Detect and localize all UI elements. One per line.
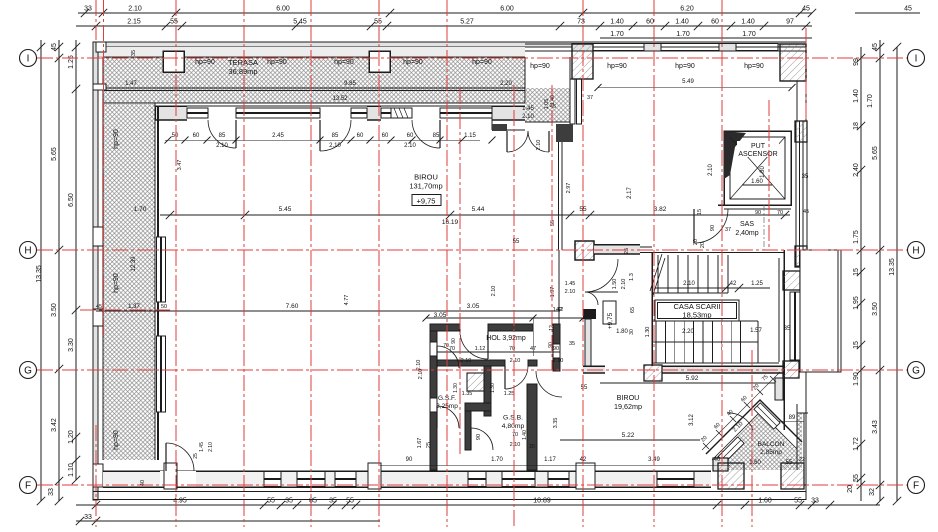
svg-text:2.10: 2.10 bbox=[128, 6, 142, 13]
svg-text:3.82: 3.82 bbox=[654, 206, 667, 213]
svg-text:85: 85 bbox=[219, 133, 226, 139]
svg-text:F: F bbox=[913, 481, 919, 492]
svg-text:15: 15 bbox=[697, 209, 703, 215]
svg-text:3.05: 3.05 bbox=[467, 303, 480, 310]
svg-text:1.40: 1.40 bbox=[610, 19, 624, 26]
svg-text:1.70: 1.70 bbox=[676, 31, 690, 38]
svg-text:16.19: 16.19 bbox=[442, 219, 459, 226]
svg-text:hp=90: hp=90 bbox=[744, 63, 764, 70]
svg-text:18: 18 bbox=[853, 122, 860, 130]
svg-text:90: 90 bbox=[451, 338, 457, 344]
svg-text:55: 55 bbox=[267, 498, 275, 505]
svg-text:1.10: 1.10 bbox=[68, 463, 75, 477]
svg-text:1.40: 1.40 bbox=[853, 89, 860, 103]
svg-text:I: I bbox=[915, 54, 918, 65]
svg-text:50: 50 bbox=[161, 304, 167, 310]
svg-text:5.45: 5.45 bbox=[279, 206, 292, 213]
svg-text:15: 15 bbox=[853, 268, 860, 276]
svg-text:37: 37 bbox=[725, 227, 731, 233]
svg-text:50: 50 bbox=[172, 133, 179, 139]
svg-text:1.50: 1.50 bbox=[612, 279, 618, 290]
svg-text:55: 55 bbox=[170, 19, 178, 26]
svg-text:1.60: 1.60 bbox=[758, 498, 772, 505]
svg-text:1.80: 1.80 bbox=[760, 166, 766, 178]
svg-text:2,85mp: 2,85mp bbox=[760, 449, 782, 456]
svg-text:1.30: 1.30 bbox=[453, 383, 459, 393]
svg-text:1.70: 1.70 bbox=[867, 94, 874, 108]
svg-text:25: 25 bbox=[426, 442, 432, 448]
svg-text:1.40: 1.40 bbox=[522, 430, 528, 440]
svg-text:12.39: 12.39 bbox=[131, 256, 137, 272]
svg-text:60: 60 bbox=[193, 133, 200, 139]
svg-text:60: 60 bbox=[646, 19, 654, 26]
svg-text:73: 73 bbox=[577, 19, 585, 26]
svg-text:55: 55 bbox=[374, 19, 382, 26]
svg-text:1.12: 1.12 bbox=[475, 346, 486, 352]
svg-text:3.43: 3.43 bbox=[872, 420, 879, 434]
svg-text:70: 70 bbox=[449, 346, 455, 352]
svg-text:1.3: 1.3 bbox=[629, 273, 635, 281]
svg-text:33: 33 bbox=[48, 488, 55, 496]
svg-text:6.20: 6.20 bbox=[680, 6, 694, 13]
svg-text:13.52: 13.52 bbox=[332, 96, 348, 102]
svg-text:1.70: 1.70 bbox=[610, 31, 624, 38]
svg-text:1.05: 1.05 bbox=[544, 99, 550, 110]
svg-text:hp=90: hp=90 bbox=[403, 59, 423, 66]
svg-text:HOL 3,92mp: HOL 3,92mp bbox=[486, 335, 526, 342]
svg-text:BIROU: BIROU bbox=[414, 173, 438, 182]
svg-text:70: 70 bbox=[443, 343, 449, 349]
svg-text:I: I bbox=[27, 54, 30, 65]
svg-text:TERASA: TERASA bbox=[228, 58, 258, 67]
svg-text:33: 33 bbox=[811, 498, 819, 505]
svg-text:60: 60 bbox=[382, 133, 389, 139]
svg-text:13.35: 13.35 bbox=[889, 258, 896, 276]
svg-text:+9,75: +9,75 bbox=[607, 312, 614, 329]
svg-text:90: 90 bbox=[476, 434, 482, 440]
svg-text:1.70: 1.70 bbox=[491, 457, 503, 463]
svg-text:6.50: 6.50 bbox=[68, 193, 75, 207]
svg-text:45: 45 bbox=[96, 304, 102, 310]
svg-text:35: 35 bbox=[802, 174, 809, 180]
svg-text:1.45: 1.45 bbox=[565, 281, 576, 287]
svg-text:97: 97 bbox=[786, 19, 794, 26]
svg-text:1.25: 1.25 bbox=[751, 281, 763, 287]
svg-text:3.42: 3.42 bbox=[51, 418, 58, 432]
svg-text:45: 45 bbox=[802, 6, 810, 13]
svg-text:89: 89 bbox=[789, 415, 796, 421]
svg-text:6.00: 6.00 bbox=[500, 6, 514, 13]
svg-text:3.50: 3.50 bbox=[872, 302, 879, 316]
svg-text:1.25: 1.25 bbox=[68, 55, 75, 69]
svg-text:45: 45 bbox=[803, 209, 809, 215]
svg-text:25: 25 bbox=[193, 453, 199, 459]
svg-text:BALCON: BALCON bbox=[758, 441, 785, 448]
svg-text:33: 33 bbox=[84, 6, 92, 13]
svg-text:2.10: 2.10 bbox=[216, 143, 228, 149]
svg-text:hp=90: hp=90 bbox=[675, 63, 695, 70]
svg-text:hp=90: hp=90 bbox=[113, 273, 120, 293]
svg-text:hp=90: hp=90 bbox=[530, 63, 550, 70]
svg-text:2.10: 2.10 bbox=[553, 358, 564, 364]
svg-text:30: 30 bbox=[629, 329, 635, 335]
svg-text:1.20: 1.20 bbox=[68, 430, 75, 444]
svg-text:60: 60 bbox=[711, 19, 719, 26]
svg-text:2.20: 2.20 bbox=[682, 329, 694, 335]
svg-text:2.10: 2.10 bbox=[510, 442, 521, 448]
svg-text:2.20: 2.20 bbox=[500, 81, 512, 87]
svg-text:2.10: 2.10 bbox=[510, 358, 521, 364]
svg-text:35: 35 bbox=[131, 50, 137, 56]
svg-text:1.72: 1.72 bbox=[853, 437, 860, 451]
svg-text:70: 70 bbox=[512, 432, 518, 438]
svg-text:2.40: 2.40 bbox=[853, 163, 860, 177]
svg-text:G.S.B.: G.S.B. bbox=[503, 415, 523, 422]
svg-text:18,53mp: 18,53mp bbox=[682, 311, 711, 320]
svg-text:90: 90 bbox=[406, 457, 413, 463]
svg-text:hp=90: hp=90 bbox=[334, 59, 354, 66]
svg-text:3.30: 3.30 bbox=[68, 338, 75, 352]
svg-text:1.30: 1.30 bbox=[645, 327, 651, 338]
svg-text:hp=90: hp=90 bbox=[267, 59, 287, 66]
svg-text:5.92: 5.92 bbox=[686, 375, 699, 382]
svg-text:2.10: 2.10 bbox=[329, 143, 341, 149]
svg-text:85: 85 bbox=[433, 133, 440, 139]
svg-text:2,40mp: 2,40mp bbox=[735, 230, 758, 237]
svg-text:13.35: 13.35 bbox=[36, 265, 43, 283]
svg-text:1.67: 1.67 bbox=[417, 438, 423, 449]
svg-text:5.44: 5.44 bbox=[472, 206, 485, 213]
svg-text:2.10: 2.10 bbox=[404, 143, 416, 149]
svg-text:20: 20 bbox=[847, 485, 854, 493]
svg-text:90: 90 bbox=[710, 225, 716, 231]
svg-text:131,70mp: 131,70mp bbox=[409, 182, 442, 191]
svg-text:2.10: 2.10 bbox=[565, 289, 576, 295]
svg-text:1.40: 1.40 bbox=[741, 19, 755, 26]
svg-text:2.10: 2.10 bbox=[491, 286, 497, 297]
svg-text:2.10: 2.10 bbox=[208, 442, 214, 452]
svg-text:+9,75: +9,75 bbox=[417, 197, 436, 206]
svg-text:35: 35 bbox=[329, 498, 337, 505]
svg-text:2.10: 2.10 bbox=[522, 114, 534, 120]
svg-text:3.12: 3.12 bbox=[689, 414, 695, 426]
svg-text:F: F bbox=[25, 481, 31, 492]
svg-text:hp=90: hp=90 bbox=[113, 430, 120, 450]
svg-text:25: 25 bbox=[624, 248, 630, 254]
svg-text:SAS: SAS bbox=[740, 221, 754, 228]
svg-text:1.47: 1.47 bbox=[125, 81, 137, 87]
svg-text:33: 33 bbox=[84, 514, 92, 521]
svg-text:H: H bbox=[24, 246, 31, 257]
svg-text:36,89mp: 36,89mp bbox=[228, 67, 257, 76]
svg-text:9.85: 9.85 bbox=[344, 81, 356, 87]
svg-text:1.42: 1.42 bbox=[553, 307, 564, 313]
svg-text:65: 65 bbox=[630, 307, 636, 313]
svg-text:BIROU: BIROU bbox=[617, 393, 640, 402]
svg-text:5.45: 5.45 bbox=[293, 19, 307, 26]
svg-text:5.65: 5.65 bbox=[51, 147, 58, 161]
svg-text:3.47: 3.47 bbox=[177, 160, 183, 171]
svg-text:1.45: 1.45 bbox=[522, 106, 534, 112]
svg-text:hp=90: hp=90 bbox=[195, 59, 215, 66]
svg-text:1.75: 1.75 bbox=[853, 230, 860, 244]
svg-text:10.89: 10.89 bbox=[533, 498, 551, 505]
svg-text:PUT: PUT bbox=[751, 143, 766, 150]
svg-text:2.10: 2.10 bbox=[621, 279, 627, 290]
svg-text:1.15: 1.15 bbox=[464, 133, 476, 139]
svg-text:6.00: 6.00 bbox=[276, 6, 290, 13]
svg-text:90: 90 bbox=[548, 342, 554, 348]
svg-text:85: 85 bbox=[309, 498, 317, 505]
svg-text:99: 99 bbox=[853, 58, 860, 66]
svg-text:4.77: 4.77 bbox=[344, 295, 350, 306]
svg-text:1.40: 1.40 bbox=[675, 19, 689, 26]
svg-text:55: 55 bbox=[581, 385, 588, 391]
svg-text:1.60: 1.60 bbox=[749, 460, 761, 466]
svg-text:hp=90: hp=90 bbox=[472, 59, 492, 66]
svg-text:1.90: 1.90 bbox=[853, 372, 860, 386]
svg-text:hp=90: hp=90 bbox=[607, 63, 627, 70]
svg-text:45: 45 bbox=[51, 43, 58, 51]
svg-text:55: 55 bbox=[794, 498, 802, 505]
svg-text:1.17: 1.17 bbox=[544, 457, 556, 463]
svg-text:37: 37 bbox=[587, 95, 593, 101]
svg-text:5.27: 5.27 bbox=[460, 19, 474, 26]
svg-text:2.15: 2.15 bbox=[127, 19, 141, 26]
svg-text:5.22: 5.22 bbox=[622, 432, 635, 439]
svg-text:G: G bbox=[24, 366, 32, 377]
svg-text:2.17: 2.17 bbox=[627, 187, 633, 199]
svg-text:1.30: 1.30 bbox=[490, 383, 496, 393]
svg-text:1.95: 1.95 bbox=[853, 296, 860, 310]
svg-text:2.10: 2.10 bbox=[536, 140, 542, 151]
svg-text:45: 45 bbox=[872, 43, 879, 51]
svg-text:G: G bbox=[912, 366, 920, 377]
svg-text:1.97: 1.97 bbox=[550, 287, 556, 298]
svg-text:20: 20 bbox=[529, 444, 535, 450]
svg-text:4,80mp: 4,80mp bbox=[502, 423, 525, 430]
svg-text:1.40: 1.40 bbox=[550, 95, 556, 105]
svg-text:1.45: 1.45 bbox=[199, 442, 205, 452]
svg-text:55: 55 bbox=[550, 220, 556, 226]
svg-text:hp=90: hp=90 bbox=[113, 129, 120, 149]
svg-text:55: 55 bbox=[853, 474, 860, 482]
svg-text:55: 55 bbox=[346, 498, 354, 505]
svg-text:2.10: 2.10 bbox=[461, 358, 472, 364]
svg-text:H: H bbox=[912, 246, 919, 257]
svg-text:19,62mp: 19,62mp bbox=[614, 402, 642, 411]
svg-text:35: 35 bbox=[285, 498, 293, 505]
svg-text:20: 20 bbox=[693, 239, 699, 245]
svg-text:1.25: 1.25 bbox=[504, 391, 515, 397]
svg-text:1.57: 1.57 bbox=[750, 328, 762, 334]
svg-text:7.60: 7.60 bbox=[286, 303, 299, 310]
svg-text:3.50: 3.50 bbox=[51, 303, 58, 317]
svg-text:4.95: 4.95 bbox=[173, 498, 187, 505]
svg-text:3.35: 3.35 bbox=[553, 418, 559, 429]
svg-text:40: 40 bbox=[714, 457, 721, 463]
svg-text:1.37: 1.37 bbox=[128, 304, 140, 310]
svg-text:15: 15 bbox=[853, 341, 860, 349]
svg-text:22: 22 bbox=[799, 457, 805, 463]
svg-text:32: 32 bbox=[869, 488, 876, 496]
svg-text:ASCENSOR: ASCENSOR bbox=[738, 151, 777, 158]
svg-text:1.80: 1.80 bbox=[616, 329, 628, 335]
svg-text:2.10: 2.10 bbox=[708, 164, 714, 176]
svg-text:1.70: 1.70 bbox=[742, 31, 756, 38]
svg-text:5.65: 5.65 bbox=[872, 146, 879, 160]
svg-text:60: 60 bbox=[357, 133, 364, 139]
svg-text:2.10: 2.10 bbox=[416, 360, 422, 371]
svg-text:2.45: 2.45 bbox=[272, 133, 284, 139]
svg-text:45: 45 bbox=[904, 6, 912, 13]
svg-text:85: 85 bbox=[332, 133, 339, 139]
svg-text:60: 60 bbox=[407, 133, 414, 139]
svg-text:1.70: 1.70 bbox=[134, 206, 147, 213]
svg-text:35: 35 bbox=[569, 341, 575, 347]
svg-text:42: 42 bbox=[730, 281, 737, 287]
svg-text:1.60: 1.60 bbox=[751, 179, 763, 185]
svg-text:20: 20 bbox=[700, 242, 706, 248]
svg-text:2.97: 2.97 bbox=[566, 183, 572, 194]
svg-text:1.35: 1.35 bbox=[462, 391, 473, 397]
svg-text:2.10: 2.10 bbox=[683, 281, 695, 287]
svg-text:5.49: 5.49 bbox=[682, 79, 694, 85]
